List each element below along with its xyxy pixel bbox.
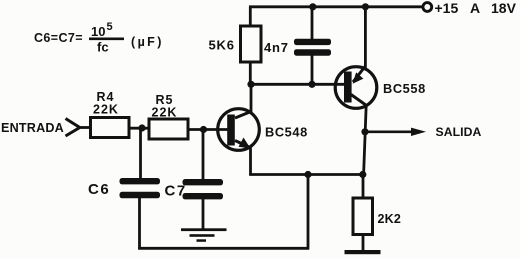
wire: C7 down to ground	[202, 199, 205, 231]
wire: R4 to R5	[129, 127, 150, 130]
svg-text:BC548: BC548	[265, 125, 308, 140]
node 4n7 bottom junction	[308, 81, 315, 88]
wire: R5 to BC548 base	[188, 128, 229, 131]
wire: node to BC558 base	[249, 83, 344, 86]
formula C6=C7=10^5/fc (uF)	[34, 21, 164, 55]
resistor R4	[91, 118, 130, 138]
node emitter/2K2	[359, 171, 366, 178]
wire: BC548 collector up to node	[250, 85, 253, 112]
wire: node down to 2K2	[362, 175, 365, 200]
wire: emitter line to 2K2 node	[249, 173, 364, 176]
node emitter/ground-return	[304, 171, 311, 178]
node rail/4n7	[309, 3, 316, 10]
node salida	[361, 128, 368, 135]
wire: C7 node down	[202, 130, 205, 181]
wire: rail up to emitter node	[307, 175, 310, 250]
svg-text:(µF): (µF)	[131, 35, 164, 49]
wire: 4n7 to node	[311, 55, 314, 85]
wire: BC548 emitter down	[249, 148, 252, 176]
svg-text:4n7: 4n7	[264, 40, 289, 55]
wire: +V top rail	[249, 5, 423, 8]
svg-text:C6=C7=: C6=C7=	[34, 31, 83, 45]
wire: rail to R 5K6	[249, 7, 252, 27]
wire: 5K6 bottom to node	[249, 62, 252, 85]
wire: input to R4	[79, 126, 93, 129]
svg-text:22K: 22K	[93, 103, 119, 117]
terminal +15V	[423, 3, 432, 12]
wire: C6 down to bottom rail	[138, 197, 141, 250]
capacitor C6	[120, 178, 161, 198]
resistor 5K6	[241, 26, 262, 62]
svg-text:22K: 22K	[152, 106, 178, 120]
wire: rail to BC558 emitter	[364, 7, 367, 69]
svg-text:10: 10	[91, 24, 105, 39]
wire: BC558 collector down through salida node	[364, 105, 367, 175]
svg-text:18V: 18V	[491, 0, 517, 16]
input terminal chevron	[66, 119, 80, 137]
node rail/BC558 emitter	[362, 3, 369, 10]
wire: bottom rail	[138, 247, 309, 250]
label +15 A 18V	[435, 0, 517, 16]
transistor Q BC548	[218, 109, 260, 151]
svg-text:BC558: BC558	[383, 81, 426, 96]
node 5K6/collector junction	[247, 81, 254, 88]
capacitor C7	[183, 179, 224, 199]
node R5/C7 junction	[200, 126, 207, 133]
transistor Q BC558	[335, 66, 377, 108]
svg-text:C6: C6	[88, 181, 110, 198]
wire: salida arrow	[365, 131, 414, 134]
svg-text:ENTRADA: ENTRADA	[1, 121, 64, 135]
svg-text:A: A	[470, 0, 480, 16]
resistor 2K2	[353, 198, 373, 235]
svg-text:+15: +15	[435, 0, 459, 16]
svg-text:SALIDA: SALIDA	[436, 125, 482, 139]
svg-text:5: 5	[107, 21, 113, 33]
ground (C7)	[181, 228, 227, 242]
svg-text:2K2: 2K2	[378, 212, 402, 226]
ground (2K2)	[345, 250, 381, 254]
resistor R5	[149, 119, 188, 139]
wire: C6 node down	[139, 128, 142, 179]
wire: rail to 4n7	[311, 7, 314, 40]
svg-text:fc: fc	[97, 40, 109, 55]
svg-text:5K6: 5K6	[209, 38, 235, 53]
wire: 2K2 to ground	[362, 235, 365, 252]
node R4/C6 junction	[138, 124, 145, 131]
capacitor 4n7	[294, 39, 331, 56]
